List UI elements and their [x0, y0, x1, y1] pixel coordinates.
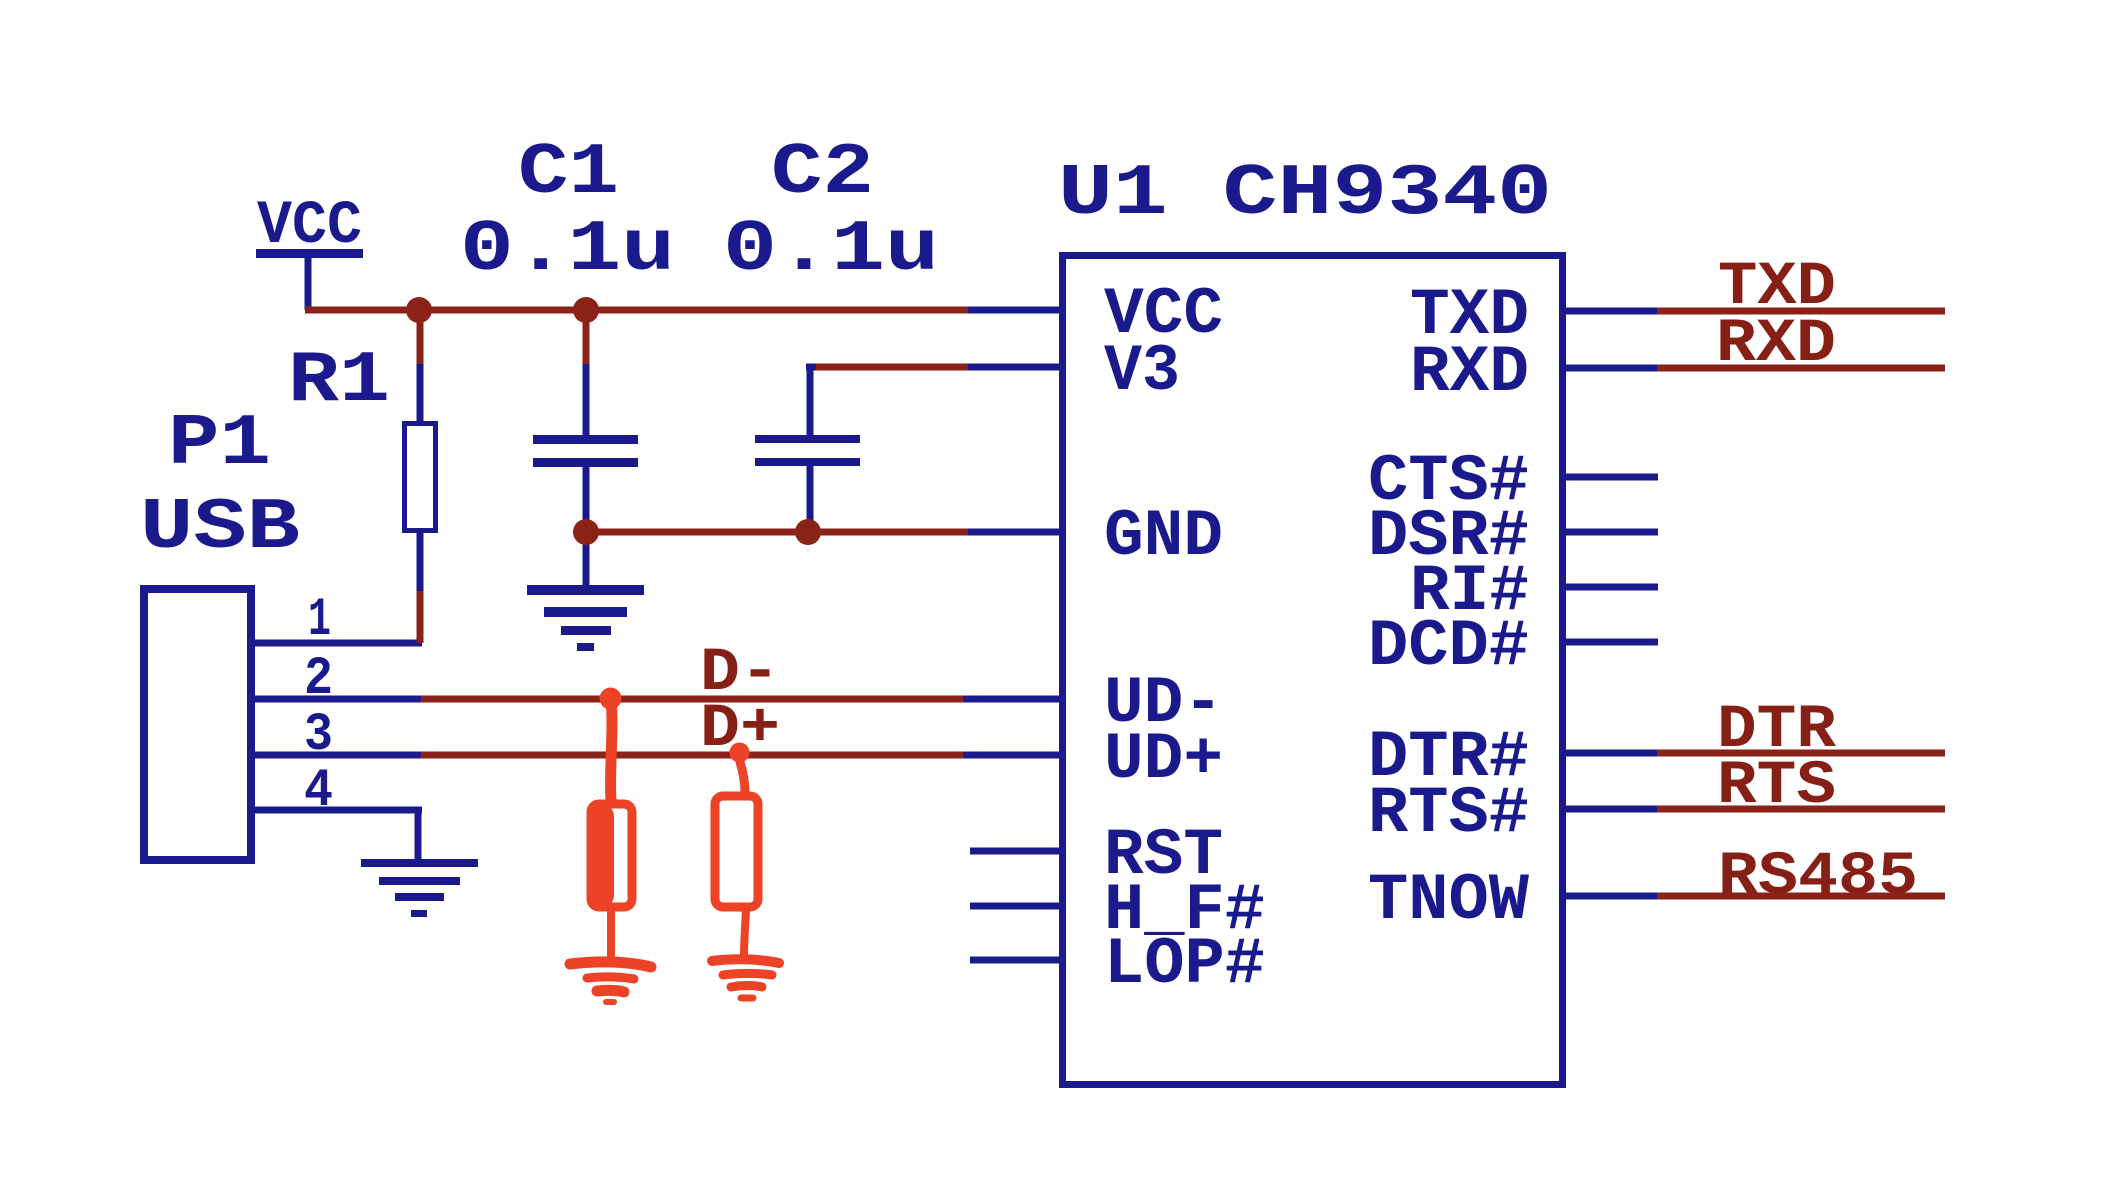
svg-text:P1: P1: [168, 403, 271, 485]
svg-text:3: 3: [304, 705, 333, 766]
svg-text:LOP#: LOP#: [1104, 927, 1265, 1002]
svg-text:0.1u: 0.1u: [723, 209, 939, 291]
svg-text:1: 1: [308, 590, 331, 651]
svg-text:2: 2: [304, 649, 333, 710]
svg-text:C1: C1: [518, 132, 619, 214]
svg-text:RXD: RXD: [1410, 335, 1529, 410]
svg-text:RTS#: RTS#: [1368, 776, 1529, 851]
svg-text:GND: GND: [1104, 499, 1223, 574]
svg-text:UD+: UD+: [1104, 722, 1223, 797]
svg-text:DCD#: DCD#: [1368, 609, 1529, 684]
svg-text:TNOW: TNOW: [1368, 863, 1529, 938]
svg-text:0.1u: 0.1u: [460, 209, 675, 291]
svg-text:U1 CH9340: U1 CH9340: [1058, 153, 1552, 235]
svg-text:VCC: VCC: [257, 192, 362, 261]
svg-text:RS485: RS485: [1718, 843, 1918, 912]
svg-text:RXD: RXD: [1716, 310, 1836, 379]
svg-text:R1: R1: [288, 340, 390, 422]
svg-text:4: 4: [304, 761, 333, 822]
svg-text:RTS: RTS: [1717, 752, 1836, 821]
svg-text:C2: C2: [771, 132, 874, 214]
svg-text:USB: USB: [140, 487, 300, 569]
svg-text:V3: V3: [1104, 334, 1180, 409]
